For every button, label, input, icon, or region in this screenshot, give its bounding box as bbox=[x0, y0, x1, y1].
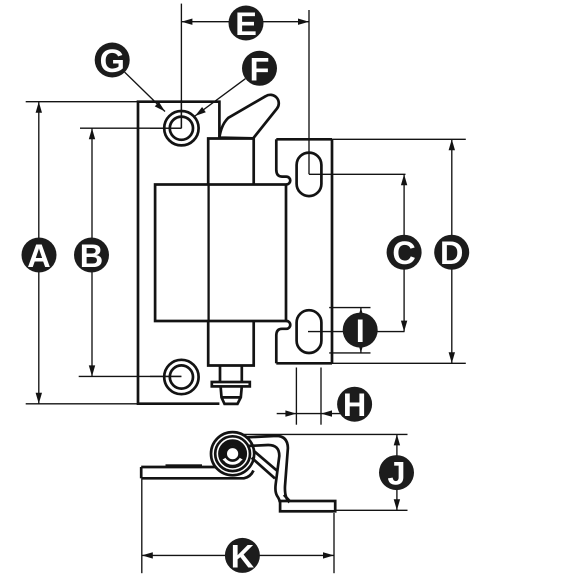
wire K right extension line bbox=[333, 513, 335, 573]
side view e-clip bottom thin arc bbox=[223, 461, 243, 466]
wire K left extension line bbox=[141, 480, 143, 574]
svg-text:J: J bbox=[387, 456, 405, 492]
top tongue fold bbox=[276, 170, 290, 185]
arrow B bottom bbox=[89, 365, 95, 376]
svg-text:I: I bbox=[356, 313, 365, 349]
side view strap bend line 1 bbox=[254, 451, 276, 470]
upper block bbox=[208, 139, 254, 185]
side view strap inner edge bbox=[247, 445, 280, 502]
side view left plate bottom edge bbox=[141, 471, 253, 479]
side view roller ring bbox=[215, 436, 250, 471]
svg-text:B: B bbox=[80, 238, 103, 274]
wire H left extension line bbox=[295, 368, 297, 425]
side view roller pin bore bbox=[226, 447, 240, 461]
svg-text:D: D bbox=[440, 235, 463, 271]
wire E left extension line bbox=[180, 4, 182, 129]
svg-text:H: H bbox=[343, 387, 366, 423]
left leaf outline bbox=[138, 102, 219, 404]
wire A top extension line bbox=[26, 101, 138, 103]
side view e-clip annulus bbox=[221, 443, 243, 465]
wire B bottom extension line bbox=[79, 375, 182, 377]
dimension A line bbox=[38, 102, 40, 404]
label C bbox=[387, 235, 422, 272]
wire D top extension line bbox=[332, 138, 466, 140]
top hole inner ring bbox=[170, 117, 193, 140]
arrow E right bbox=[298, 19, 309, 25]
side view left plate left cap bbox=[140, 467, 143, 478]
wire I bottom extension line bbox=[329, 352, 370, 354]
label H bbox=[337, 387, 372, 424]
leader F line bbox=[195, 79, 245, 116]
arrow A top bbox=[36, 102, 42, 113]
svg-text:K: K bbox=[231, 538, 255, 574]
dimension E line bbox=[181, 21, 309, 23]
arrow G bbox=[155, 102, 165, 112]
dimension C line bbox=[403, 174, 405, 331]
arrow A bottom bbox=[36, 393, 42, 404]
label F bbox=[242, 51, 277, 88]
svg-text:C: C bbox=[392, 235, 415, 271]
pin shaft bbox=[220, 366, 242, 383]
wire H right extension line bbox=[320, 368, 322, 425]
arrow D bottom bbox=[449, 352, 455, 363]
right leaf right edge bbox=[331, 139, 334, 363]
leader G line bbox=[125, 72, 165, 111]
right leaf left edge lower bbox=[275, 335, 278, 364]
side view e-clip bottom opening bbox=[223, 457, 243, 465]
label B bbox=[74, 238, 109, 275]
side view left plate top edge bbox=[141, 466, 215, 469]
wire A bottom extension line bbox=[26, 403, 138, 405]
wire top slot centerline bbox=[309, 173, 406, 175]
pin washer bbox=[212, 382, 250, 386]
arrow D top bbox=[449, 139, 455, 150]
side view strap foot line bbox=[284, 495, 290, 501]
side view right plate bbox=[280, 501, 335, 511]
dimension I line bbox=[360, 308, 362, 353]
svg-text:A: A bbox=[27, 238, 50, 274]
arrow H left bbox=[285, 410, 296, 416]
right leaf left edge upper bbox=[275, 139, 278, 170]
arrow H right bbox=[321, 410, 332, 416]
label G bbox=[95, 43, 130, 80]
side view strap bend line 2 bbox=[252, 458, 275, 479]
dimension H line bbox=[277, 413, 342, 415]
arrow E left bbox=[181, 19, 192, 25]
svg-text:F: F bbox=[250, 51, 270, 87]
wire bottom slot centerline bbox=[308, 331, 405, 333]
arrow I top bbox=[358, 308, 364, 319]
side view roller outer bbox=[211, 432, 254, 475]
label J bbox=[379, 455, 414, 492]
arrow J top bbox=[394, 434, 400, 445]
arrow I bottom bbox=[358, 342, 364, 353]
top hole outer ring bbox=[164, 111, 198, 145]
wire B top extension line bbox=[80, 127, 181, 129]
bottom hole inner ring bbox=[170, 365, 193, 388]
top slot bbox=[297, 153, 322, 197]
svg-text:G: G bbox=[100, 43, 125, 79]
lever knob bbox=[219, 95, 278, 139]
bottom tongue fold bbox=[276, 321, 290, 335]
arrow C bottom bbox=[401, 321, 407, 332]
wire E right extension line bbox=[308, 10, 310, 174]
barrel internal edge line bbox=[207, 185, 209, 322]
arrow F bbox=[195, 107, 206, 116]
wire J top extension line bbox=[244, 433, 408, 435]
bottom slot bbox=[297, 310, 322, 353]
arrow B top bbox=[89, 128, 95, 139]
dimension J line bbox=[396, 434, 398, 510]
arrow C top bbox=[401, 174, 407, 185]
label A bbox=[22, 238, 57, 275]
label E bbox=[229, 6, 264, 43]
label D bbox=[434, 235, 469, 272]
dimension D line bbox=[451, 139, 453, 363]
bottom hole outer ring bbox=[164, 360, 198, 394]
barrel wide body bbox=[155, 185, 286, 322]
wire B bottom into hole bbox=[150, 375, 181, 377]
wire B top into hole bbox=[150, 127, 181, 129]
right leaf top edge bbox=[276, 138, 332, 141]
side view slot boss strip bbox=[166, 464, 203, 467]
dimension B line bbox=[91, 128, 93, 376]
arrow J bottom bbox=[394, 499, 400, 510]
wire J bottom extension line bbox=[336, 509, 408, 511]
label I bbox=[343, 313, 378, 350]
wire I top extension line bbox=[329, 307, 370, 309]
label K bbox=[225, 538, 260, 575]
wire E down into hole bbox=[180, 100, 182, 128]
wire D bottom extension line bbox=[332, 362, 466, 364]
right leaf bottom edge bbox=[276, 362, 332, 365]
lower block bbox=[208, 321, 254, 366]
pin tip bbox=[221, 386, 242, 404]
svg-text:E: E bbox=[235, 6, 257, 42]
side view strap outer edge bbox=[246, 436, 290, 502]
arrow K right bbox=[323, 552, 334, 558]
arrow K left bbox=[142, 552, 153, 558]
dimension K line bbox=[142, 554, 334, 556]
